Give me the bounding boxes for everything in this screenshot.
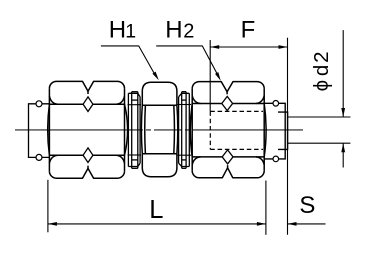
- svg-text:S: S: [299, 192, 315, 219]
- svg-text:ϕ: ϕ: [310, 80, 333, 91]
- svg-text:2: 2: [183, 21, 194, 43]
- svg-text:H: H: [165, 17, 182, 44]
- svg-text:d: d: [310, 65, 333, 76]
- svg-text:H: H: [109, 17, 126, 44]
- svg-text:1: 1: [125, 21, 136, 43]
- svg-text:2: 2: [310, 51, 333, 62]
- svg-text:L: L: [149, 196, 163, 224]
- svg-text:F: F: [241, 17, 256, 44]
